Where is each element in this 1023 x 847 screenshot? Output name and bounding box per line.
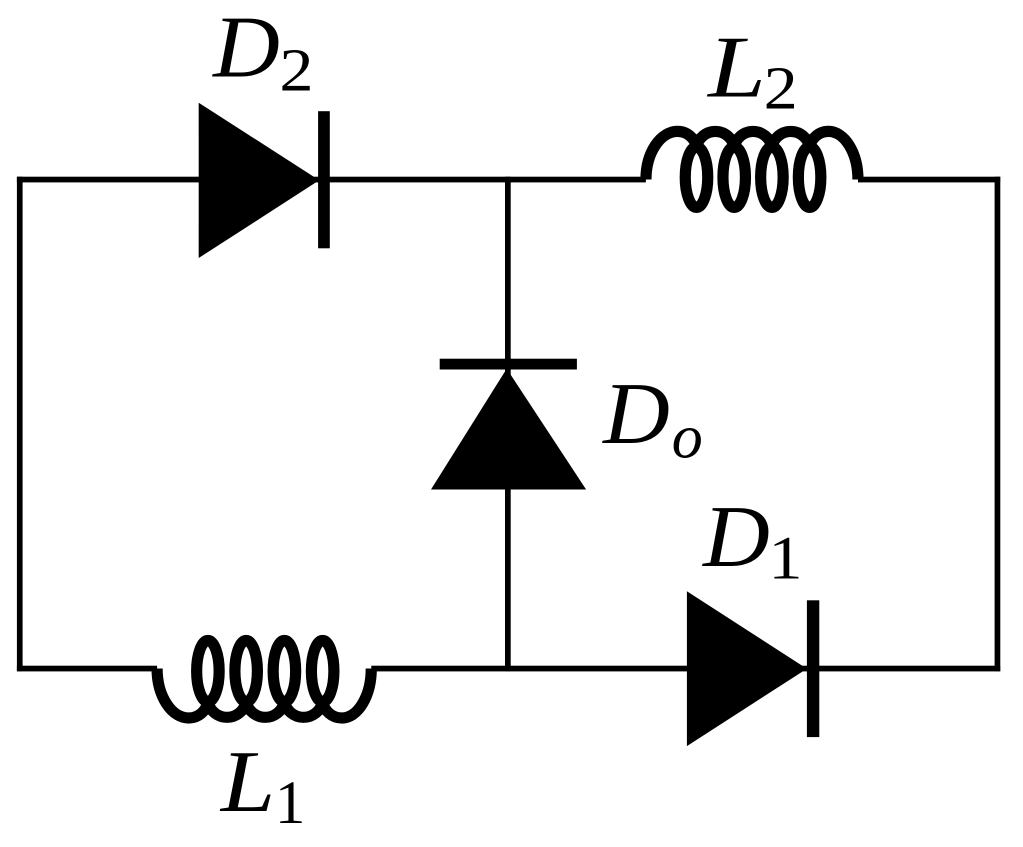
svg-text:1: 1 [768, 525, 802, 593]
diode D2 triangle [199, 103, 320, 258]
wire top right segment [858, 177, 1000, 183]
svg-text:1: 1 [275, 770, 306, 837]
diode D2 cathode bar [318, 111, 330, 248]
svg-text:D: D [701, 488, 770, 586]
wire top left segment [17, 177, 646, 183]
svg-text:o: o [672, 404, 703, 472]
wire middle vertical [505, 177, 511, 672]
diode D1 cathode bar [807, 600, 819, 737]
wire left vertical [17, 177, 23, 672]
svg-text:2: 2 [279, 37, 313, 105]
diode D1 triangle [687, 591, 807, 746]
inductor L2 coil [646, 131, 858, 207]
svg-text:D: D [601, 365, 670, 463]
diode Do cathode bar [440, 359, 577, 370]
svg-text:L: L [706, 18, 766, 116]
wire bottom left segment [17, 666, 157, 672]
wire right vertical [995, 177, 1001, 672]
inductor L1 coil [157, 641, 371, 719]
diode Do triangle [431, 369, 586, 490]
wire bottom right segment [371, 666, 1000, 672]
svg-text:L: L [219, 733, 275, 830]
svg-text:D: D [211, 0, 280, 96]
svg-text:2: 2 [764, 55, 798, 123]
